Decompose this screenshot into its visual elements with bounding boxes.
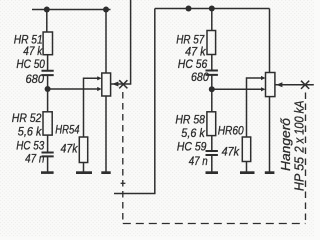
pot P2 wiper arrowhead upper bbox=[261, 76, 266, 80]
pot P2 shaft cross X bbox=[301, 81, 309, 89]
wire: pot P1 shaft line to top edge bbox=[111, 0, 131, 84]
wire: right top rail bbox=[155, 8, 270, 10]
wire: HC56 to node B bbox=[211, 75, 213, 90]
ground under pot P1 bbox=[101, 171, 110, 174]
dashed mechanical link: right pot down bbox=[305, 93, 307, 224]
wire: HC59 to ground bbox=[211, 155, 213, 172]
potentiometer HP55 gang 1 body bbox=[102, 73, 111, 96]
svg-text:HC 59: HC 59 bbox=[177, 139, 207, 153]
node: junction dot top rail left bbox=[44, 7, 50, 13]
pot P1 wiper arrowhead upper bbox=[97, 76, 102, 80]
node A junction dot HC50/HR52/wiper bbox=[45, 86, 51, 92]
pot P1 shaft cross X bbox=[119, 80, 127, 88]
svg-text:HC 53: HC 53 bbox=[16, 139, 44, 153]
node: junction dot right rail 1 bbox=[186, 6, 192, 12]
svg-text:HC 56: HC 56 bbox=[178, 57, 208, 71]
ground under HC59 bbox=[206, 171, 219, 174]
wire: HR52 to HC53 bbox=[47, 135, 49, 152]
resistor HR57 body bbox=[207, 31, 216, 55]
svg-text:47k: 47k bbox=[222, 145, 240, 159]
svg-text:HR54: HR54 bbox=[55, 123, 79, 137]
wire: HR57 to HC56 bbox=[211, 55, 213, 71]
node: junction dot top rail / pot P1 bbox=[103, 7, 109, 13]
svg-text:47 n: 47 n bbox=[25, 152, 45, 166]
wire: drop from node to HR51 bbox=[46, 10, 48, 33]
wire: HR51 to HC50 bbox=[47, 55, 49, 71]
ground under HC53 bbox=[41, 171, 54, 174]
wire: pot P2 shaft line to right edge bbox=[275, 84, 314, 86]
pot P1 wiper arrowhead lower bbox=[97, 87, 102, 91]
svg-text:47k: 47k bbox=[61, 142, 79, 156]
capacitor HC50 plates bbox=[42, 71, 54, 75]
resistor HR51 body bbox=[43, 32, 52, 55]
wire: top rail to pot P1 top bbox=[105, 10, 107, 74]
wire: node B to pot P2 lower arrow bbox=[212, 88, 261, 90]
wire: HC50 to node A bbox=[47, 75, 49, 89]
svg-text:HR 58: HR 58 bbox=[175, 113, 205, 127]
capacitor HC56 plates bbox=[206, 71, 218, 75]
ground under HR54 bbox=[76, 171, 92, 174]
pot P2 wiper arrowhead lower bbox=[261, 87, 266, 91]
svg-text:680: 680 bbox=[26, 72, 45, 86]
node B junction dot HC56/HR58/wiper bbox=[209, 86, 215, 92]
potentiometer HP55 gang 2 body bbox=[266, 73, 275, 97]
wire: node A to pot wiper lower arrow bbox=[48, 88, 98, 90]
pot P2 shaft arrowhead bbox=[276, 82, 282, 87]
resistor HR60 body bbox=[242, 137, 250, 162]
wire: pot P2 bottom to ground bbox=[269, 97, 271, 172]
resistor HR52 body bbox=[43, 112, 52, 135]
wire: HR54 to ground bbox=[83, 163, 85, 172]
svg-text:HC 50: HC 50 bbox=[16, 57, 45, 71]
svg-text:47 n: 47 n bbox=[189, 154, 208, 168]
svg-text:5,6 k: 5,6 k bbox=[18, 125, 43, 139]
wire: node A down to HR52 bbox=[47, 89, 49, 112]
capacitor HC53 plates bbox=[42, 153, 54, 157]
ground under pot P2 bbox=[265, 171, 275, 174]
svg-text:HP 55: HP 55 bbox=[292, 156, 307, 191]
wire: HC53 to ground bbox=[47, 156, 49, 171]
dashed mechanical link: bottom run bbox=[123, 223, 306, 225]
svg-text:HR60: HR60 bbox=[218, 123, 244, 137]
wire: HR60 to ground bbox=[246, 162, 248, 172]
wire: drop from node to HR57 bbox=[211, 9, 213, 31]
wire: node B down to HR58 bbox=[211, 89, 213, 112]
wire: pot P2 upper tap L-wire down to HR60 bbox=[247, 78, 262, 137]
svg-text:5,6 k: 5,6 k bbox=[181, 126, 205, 140]
wire: HR58 to HC59 bbox=[211, 136, 213, 151]
svg-text:2 x 100 kA: 2 x 100 kA bbox=[292, 101, 307, 154]
ground under HR60 bbox=[240, 171, 255, 174]
svg-text:HR 52: HR 52 bbox=[12, 111, 42, 125]
resistor HR58 body bbox=[207, 112, 216, 136]
wire: left top rail bbox=[32, 9, 111, 11]
wire: pot P1 bottom to ground bbox=[105, 96, 107, 172]
svg-text:47 k: 47 k bbox=[23, 44, 43, 58]
node: junction dot right rail / HR57 bbox=[209, 6, 215, 12]
tick on dashed link bbox=[121, 182, 126, 184]
resistor HR54 body bbox=[79, 137, 87, 163]
wire: pot upper tap L-wire down to HR54 bbox=[84, 78, 99, 137]
wire: right block left vertical and bottom stub bbox=[114, 9, 155, 194]
pot P1 shaft arrowhead bbox=[112, 82, 118, 87]
svg-text:680: 680 bbox=[191, 70, 209, 84]
capacitor HC59 plates bbox=[206, 151, 218, 155]
wire: top rail corner down to pot P2 top bbox=[269, 9, 271, 73]
dashed mechanical link: left pot down bbox=[122, 92, 124, 224]
